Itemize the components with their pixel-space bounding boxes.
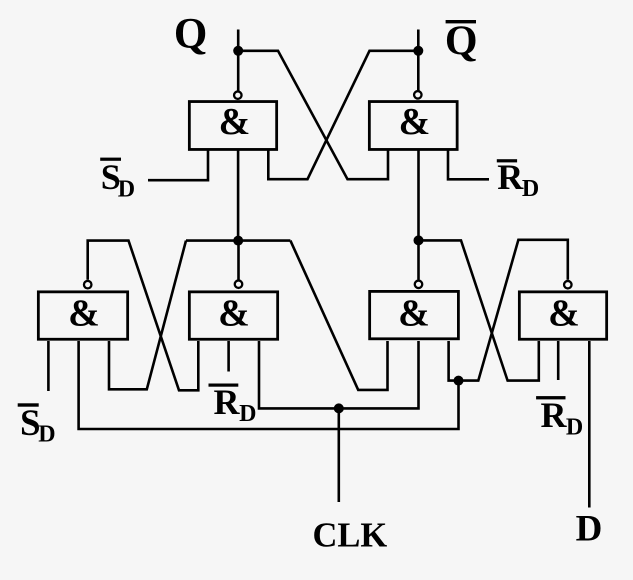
wire U5 output to node R	[417, 240, 420, 279]
svg-text:D: D	[576, 509, 603, 550]
input R_D stub (U6 center pin)	[557, 341, 560, 380]
wire U3 output to U4 input (cross-couple)	[88, 241, 199, 391]
label R_D (under U6)	[536, 395, 583, 441]
svg-text:D: D	[38, 422, 55, 448]
wire U6 output to node D-bar	[459, 240, 568, 381]
wire Q-bar vertical stub	[417, 30, 420, 91]
wire U2 center pin to node R	[417, 150, 420, 240]
gate U4 (bottom mid-left NAND)	[189, 280, 277, 339]
svg-text:R: R	[214, 382, 241, 422]
input S_D bottom stub (U3 left pin)	[47, 341, 50, 391]
svg-text:D: D	[566, 415, 583, 441]
gate U3 (bottom far left NAND)	[38, 281, 127, 339]
svg-text:&: &	[399, 101, 431, 143]
wire node S to U5 input (right diagonal)	[290, 241, 387, 390]
junction node D-bar	[454, 376, 464, 386]
svg-text:Q: Q	[445, 19, 478, 65]
junction node S	[233, 236, 243, 246]
node Q	[174, 11, 207, 58]
svg-text:R: R	[497, 157, 524, 197]
wire Q-bar to U1 input (cross-couple)	[268, 51, 418, 179]
label CLK	[313, 516, 388, 554]
svg-text:&: &	[218, 293, 250, 335]
node Q-bar	[445, 19, 478, 65]
svg-text:&: &	[219, 101, 251, 143]
gate U2 (top right NAND)	[369, 91, 457, 149]
wire CLK net (U4 right pin across to U5 center pin)	[259, 341, 419, 408]
svg-text:&: &	[548, 293, 580, 335]
junction Q-bar	[413, 46, 423, 56]
wire Q to U2 input (cross-couple)	[238, 51, 388, 179]
label R_D (under U4)	[209, 382, 257, 427]
wire D input (U6 right pin)	[588, 341, 591, 508]
junction CLK	[334, 403, 344, 413]
svg-text:&: &	[68, 293, 100, 335]
label D	[576, 509, 603, 550]
input R_D stub (U4 center pin)	[227, 341, 230, 372]
junction node R	[414, 235, 424, 245]
wire node S horizontal	[186, 239, 290, 242]
input S_D top stub	[148, 150, 208, 180]
label S_D (top left)	[100, 157, 135, 202]
wire node D-bar down and across to U3 center pin	[79, 341, 459, 429]
wire node R to U6 input (right diagonal)	[419, 240, 539, 380]
label R_D (top right)	[497, 157, 539, 202]
svg-text:D: D	[239, 401, 256, 427]
wire U1 center pin to node S	[237, 150, 240, 241]
svg-text:D: D	[118, 177, 135, 203]
wire node D-bar to U5 right pin	[449, 341, 459, 381]
wire CLK vertical	[337, 408, 340, 502]
junction Q	[233, 46, 243, 56]
gate U1 (top left NAND)	[189, 91, 276, 149]
svg-text:&: &	[398, 293, 430, 335]
wire node S to U3 input (left diagonal)	[109, 241, 186, 390]
wire U4 output to node S	[237, 241, 240, 280]
wire Q vertical stub	[237, 30, 240, 91]
label S_D (bottom left)	[18, 403, 56, 447]
input R_D top stub	[448, 150, 489, 179]
svg-text:D: D	[522, 176, 539, 202]
svg-text:CLK: CLK	[313, 516, 388, 554]
gate U5 (bottom mid-right NAND)	[370, 281, 459, 339]
svg-text:Q: Q	[174, 11, 207, 58]
gate U6 (bottom far right NAND)	[519, 281, 606, 339]
svg-text:R: R	[541, 395, 568, 435]
